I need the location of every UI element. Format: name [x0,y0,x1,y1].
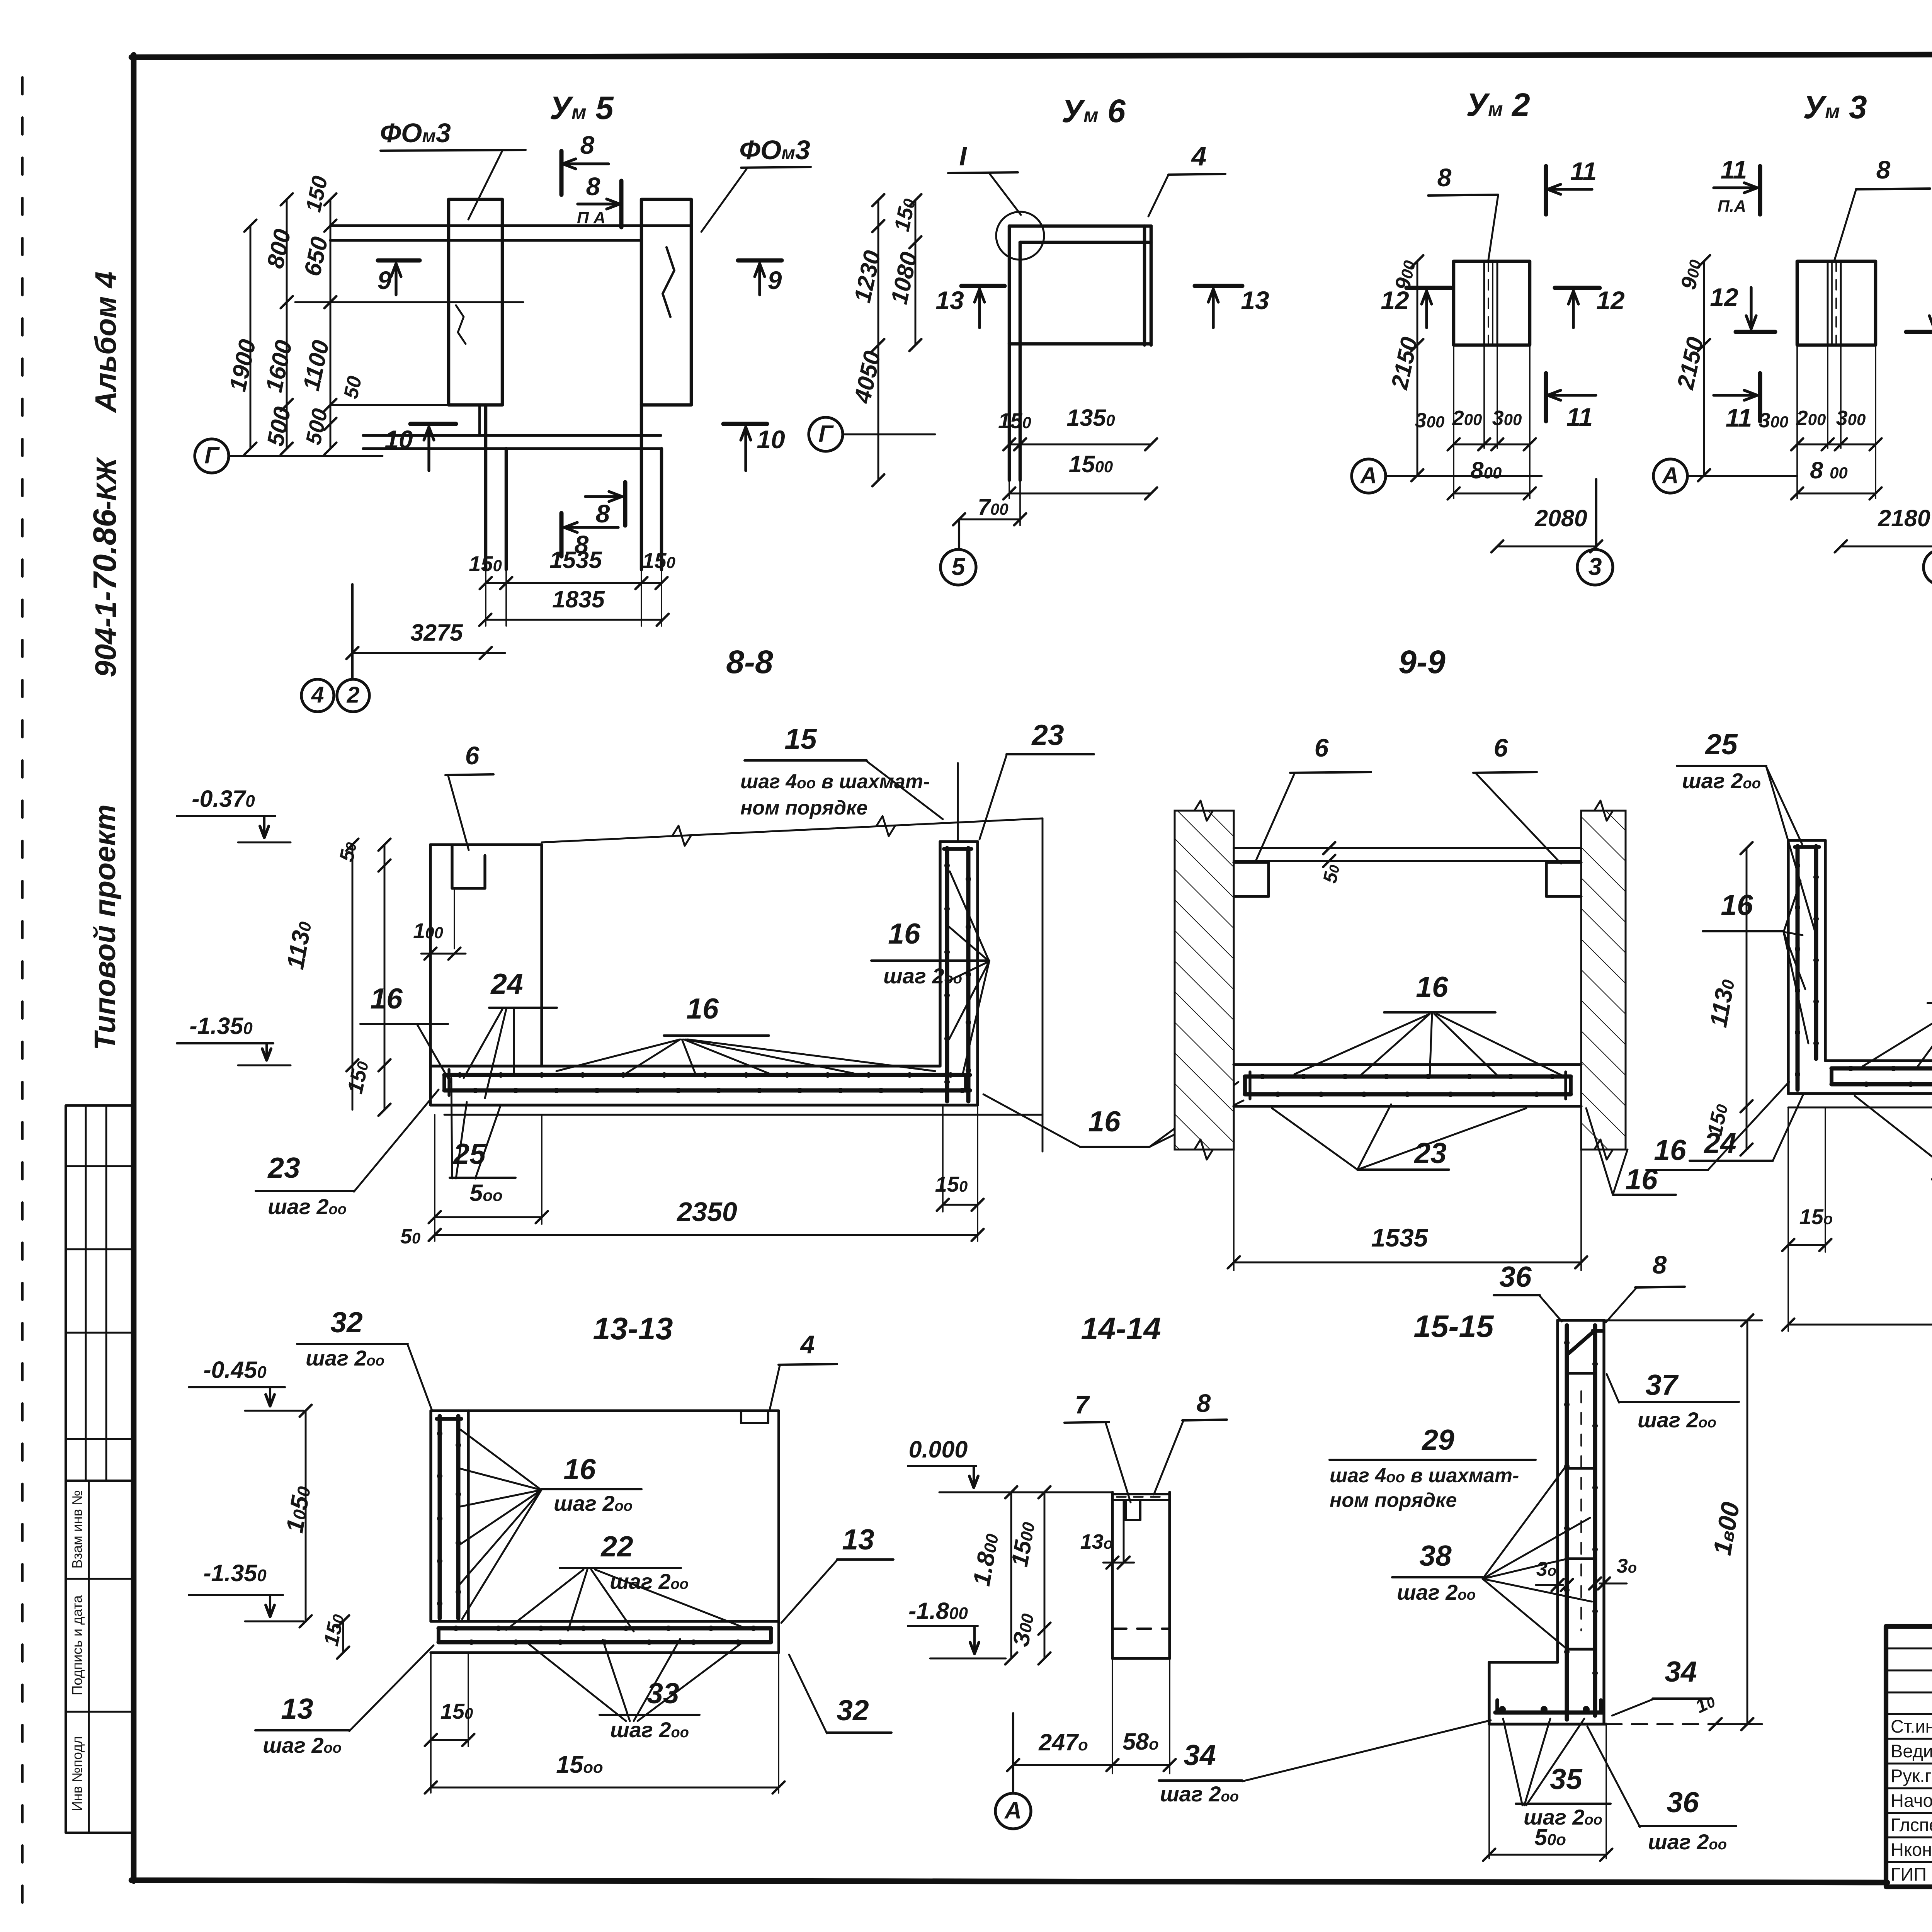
svg-text:3: 3 [1588,553,1602,580]
svg-text:Альбом 4: Альбом 4 [89,271,122,413]
svg-text:Типовой проект: Типовой проект [88,804,122,1051]
svg-text:11: 11 [1566,403,1593,431]
sheet border left [131,55,137,1881]
svg-text:5: 5 [951,553,965,580]
svg-text:35: 35 [1550,1763,1583,1795]
svg-text:Вединж: Вединж [1891,1741,1932,1761]
plan Um3 marker 12 down left [1736,330,1775,334]
section 15-15 wall rebar columns [1565,1325,1569,1719]
svg-text:шаг 4оо в шахмат-: шаг 4оо в шахмат- [740,770,930,793]
section 8-8 slab rebar end hooks [442,1075,446,1090]
plan Um6 left dim lines [878,200,879,345]
svg-text:ном порядке: ном порядке [740,797,867,819]
margin stamp upper table [66,1105,134,1481]
svg-text:ФОм3: ФОм3 [739,135,810,165]
plan Um3 marker 12 down right [1906,330,1932,334]
svg-text:Подпись и дата: Подпись и дата [69,1595,85,1696]
svg-text:11: 11 [1721,155,1747,184]
svg-text:70.86: 70.86 [87,509,123,590]
section 14-14 dashed level line inside wall [1112,1628,1170,1630]
svg-text:12: 12 [1596,286,1625,315]
section 13-13 left wall verticals [429,1411,432,1621]
svg-text:904-1-: 904-1- [89,591,122,677]
plan Um5 axis circle 4 [301,679,334,712]
section 14-14 inner line 130 offset [1123,1500,1125,1563]
svg-text:16: 16 [1416,971,1449,1003]
svg-text:15-15: 15-15 [1413,1309,1494,1344]
svg-text:23: 23 [1031,719,1064,751]
plan Um5 wall strip down-left [484,405,488,570]
section 14-14 wall bottom [1112,1657,1170,1660]
sheet border top [131,53,1932,57]
plan Um6 extension lines [1019,345,1021,526]
svg-text:9-9: 9-9 [1398,644,1446,680]
plan Um3 extension lines below wall [1827,345,1828,448]
svg-text:2080: 2080 [1534,505,1587,531]
section 13-13 slab rebar rows [439,1626,771,1631]
section 13-13 top wall line [431,1409,779,1412]
svg-text:32: 32 [837,1694,869,1726]
plan Um2 axis line and circle 3 [1595,546,1597,549]
margin stamp lower table [66,1481,134,1833]
svg-text:А: А [1662,463,1679,488]
section 9-9 corner blocks [1234,862,1269,896]
title block signature rows [1886,1648,1932,1650]
plan Um6 detail circle [996,212,1044,260]
svg-text:13: 13 [281,1692,313,1725]
section 15-15 bottom edge thin extension and dim 10 [1606,1723,1710,1725]
svg-text:Взам инв №: Взам инв № [69,1490,85,1568]
plan Um5 right column break zigzag [663,247,674,317]
svg-text:шаг 4оо в шахмат-: шаг 4оо в шахмат- [1330,1464,1519,1487]
section 10-10 extension lines [1787,1107,1789,1331]
svg-text:16: 16 [888,917,921,950]
svg-text:16: 16 [563,1453,596,1485]
section 14-14 top level extension line [939,1492,1112,1493]
svg-text:16: 16 [1721,889,1753,921]
svg-text:Рук.гр: Рук.гр [1891,1765,1932,1786]
plan Um5 top wall line inner [330,239,641,241]
svg-text:8: 8 [1653,1250,1667,1279]
plan Um6 axis circle G [809,417,843,451]
svg-text:4: 4 [800,1330,815,1359]
section 9-9 extension lines [1233,1106,1235,1270]
plan Um5 marker 9 up right [738,259,782,263]
section 9-9 top slab lines [1234,847,1581,849]
section 8-8 notch detail 6 [452,845,485,888]
svg-text:1535: 1535 [1371,1223,1429,1252]
svg-text:2180: 2180 [1878,505,1930,531]
plan Um5 right column FOm3 [641,199,691,405]
svg-text:-КЖ: -КЖ [91,457,122,510]
svg-text:Г: Г [818,420,834,447]
svg-text:16: 16 [370,982,403,1015]
plan Um3 section mark 11 upper with PA [1758,166,1762,214]
svg-text:6: 6 [465,741,480,770]
section 8-8 right wall rebar [945,848,949,1101]
section 15-15 wall rebar top hook [1569,1332,1594,1353]
svg-text:8: 8 [596,499,610,528]
svg-text:13-13: 13-13 [593,1311,673,1346]
svg-text:37: 37 [1645,1369,1679,1401]
svg-text:Глспец: Глспец [1891,1815,1932,1835]
svg-text:8: 8 [1876,155,1891,184]
svg-text:36: 36 [1667,1786,1699,1818]
svg-text:2350: 2350 [676,1197,737,1227]
section 14-14 extension lines [1112,1658,1113,1774]
svg-text:34: 34 [1665,1655,1697,1688]
svg-text:11: 11 [1726,403,1752,432]
plan Um5 marker 10 up right [723,422,767,426]
plan Um6 walls [1009,224,1151,228]
plan Um3 wall rectangle [1797,261,1876,345]
plan Um6 marker 13 up left [961,284,1005,288]
svg-text:9: 9 [378,266,392,294]
plan Um2 wall inner joints [1483,261,1485,345]
svg-text:Начотд: Начотд [1891,1790,1932,1811]
section 14-14 top notch detail [1126,1502,1140,1520]
section 8-8 slab rebar upper [444,1073,970,1077]
svg-text:А: А [1004,1797,1022,1823]
plan Um3 axis circle A [1653,459,1687,493]
section 9-9 slab rebar rows [1245,1075,1571,1079]
svg-text:Г: Г [204,442,220,468]
section 8-8 slab bottom thin line [444,1114,1043,1116]
svg-text:34: 34 [1184,1739,1216,1771]
svg-text:9: 9 [768,266,782,294]
plan Um5 section mark 8 right-arrow with PA [619,181,624,227]
svg-text:8-8: 8-8 [726,644,773,680]
section 8-8 right wall outline [939,842,941,1066]
svg-text:Ст.инж: Ст.инж [1891,1716,1932,1736]
section 15-15 footing outline [1489,1661,1558,1663]
plan Um3 section mark 11 lower [1758,373,1762,421]
svg-text:15: 15 [784,723,817,755]
plan Um5 section mark 8 upper-left-arrow [560,151,564,195]
plan Um5 upper-left region bottom line [330,404,480,406]
plan Um2 marker 12 up right [1555,286,1600,290]
plan Um5 section mark 8 lower right-arrow [623,482,628,526]
svg-text:I: I [959,141,967,171]
svg-text:38: 38 [1419,1539,1452,1572]
svg-text:13: 13 [935,286,964,315]
svg-text:П.А: П.А [1718,197,1746,216]
svg-text:50: 50 [340,374,366,401]
plan Um5 axis line to circles 4 2 [351,584,354,678]
section 10-10 left wall outline [1787,840,1789,1094]
svg-text:16: 16 [686,992,719,1025]
section 9-9 left hatched wall [1175,811,1234,1150]
plan Um5 squiggle in left column [456,305,466,344]
plan Um5 top wall line outer [330,224,691,227]
section 13-13 floor slab [431,1620,779,1622]
plan Um5 dim column left: lines and ticks [250,226,252,449]
section 15-15 wall outline [1556,1320,1559,1662]
title block outer box [1886,1626,1932,1887]
section 15-15 footing rebar [1495,1711,1603,1715]
plan Um5 axis circle G [195,439,229,473]
svg-text:10: 10 [384,425,413,454]
section 15-15 extension lines [1488,1724,1490,1859]
svg-text:3275: 3275 [410,619,463,646]
svg-text:14-14: 14-14 [1081,1311,1161,1346]
svg-text:8: 8 [586,172,600,201]
svg-text:36: 36 [1499,1260,1532,1293]
svg-text:13: 13 [1241,286,1269,315]
svg-text:2: 2 [347,682,360,708]
section 13-13 extension lines [430,1653,432,1793]
svg-text:23: 23 [267,1151,300,1184]
section 14-14 axis line and circle A [1012,1713,1014,1792]
svg-text:11: 11 [1570,157,1597,185]
svg-text:16: 16 [1654,1134,1687,1166]
section 10-10 slab rebar rows [1832,1066,1932,1071]
section 15-15 wall ties [1567,1372,1595,1374]
sheet border bottom [131,1880,1887,1883]
svg-text:32: 32 [330,1306,362,1338]
svg-text:8: 8 [580,131,595,159]
plan Um5 wall strip down-right [640,405,643,570]
svg-text:7: 7 [1075,1390,1090,1419]
section 14-14 wall outline [1111,1492,1114,1658]
section 13-13 right edge line [777,1411,780,1653]
plan Um6 axis line and circle 5 [958,519,960,549]
svg-text:Нконтр: Нконтр [1891,1839,1932,1860]
svg-text:16: 16 [1625,1163,1658,1196]
section 13-13 corner notch [741,1411,768,1423]
section 8-8 top break line [542,818,1043,842]
section 10-10 left wall rebar [1796,846,1800,1090]
svg-text:23: 23 [1413,1137,1446,1169]
plan Um5 marker 10 up left [410,422,456,426]
plan Um2 wall rectangle [1454,261,1530,345]
svg-text:10: 10 [757,425,785,454]
svg-text:0.000: 0.000 [909,1436,968,1463]
svg-text:8: 8 [1197,1389,1211,1417]
section 9-9 right hatched wall [1581,811,1626,1150]
plan Um3 wall inner joints [1827,261,1829,345]
plan Um5 marker 9 up left [378,259,420,263]
plan Um5 extension lines bottom [485,570,486,626]
svg-text:12: 12 [1710,283,1738,311]
plan Um6 marker 13 up right [1195,284,1242,288]
svg-text:4: 4 [1191,141,1207,171]
section 8-8 extension line above right wall [957,763,959,842]
plan Um5 lower wall band [363,434,661,437]
section 8-8 slab rebar lower [444,1088,970,1093]
svg-text:16: 16 [1088,1105,1121,1138]
left margin outer dashed line [21,77,24,1913]
svg-text:1835: 1835 [552,586,605,612]
plan Um2 section mark 11 upper [1544,166,1548,214]
plan Um2 section mark 11 lower [1544,373,1548,421]
svg-text:24: 24 [490,968,523,1000]
section 8-8 right boundary thin line [1042,818,1044,1151]
svg-text:6: 6 [1315,733,1329,762]
plan Um5 axis tick line mid [295,301,523,303]
svg-text:ном порядке: ном порядке [1330,1489,1457,1512]
section 8-8 left wall outline [430,843,542,846]
svg-text:29: 29 [1421,1423,1454,1456]
plan Um2 axis circle A [1352,459,1386,493]
svg-text:А: А [1360,463,1377,488]
svg-text:4: 4 [311,682,324,708]
section 13-13 wall rebar [438,1416,442,1618]
plan Um5 left column FOm3 [449,199,502,405]
section 9-9 floor slab [1234,1063,1581,1066]
plan Um2 extension lines below wall [1483,345,1485,448]
section 8-8 floor slab outline [430,1065,940,1067]
plan Um2 marker 12 up left [1406,286,1451,290]
svg-text:6: 6 [1494,733,1509,762]
svg-text:25: 25 [1704,728,1738,760]
svg-text:8: 8 [1437,163,1452,192]
svg-text:1535: 1535 [549,547,602,573]
plan Um5 axis circle 2 [337,679,369,712]
section 8-8 extension lines [434,1115,435,1241]
svg-text:13: 13 [842,1523,874,1556]
svg-text:ФОм3: ФОм3 [380,118,451,148]
plan Um5 section mark 8 lower left-arrow [560,513,564,556]
svg-text:ГИП: ГИП [1891,1864,1927,1884]
svg-text:24: 24 [1703,1127,1736,1159]
section 10-10 floor slab [1825,1059,1932,1062]
svg-text:Инв №подл: Инв №подл [69,1736,85,1811]
svg-text:22: 22 [600,1530,633,1563]
